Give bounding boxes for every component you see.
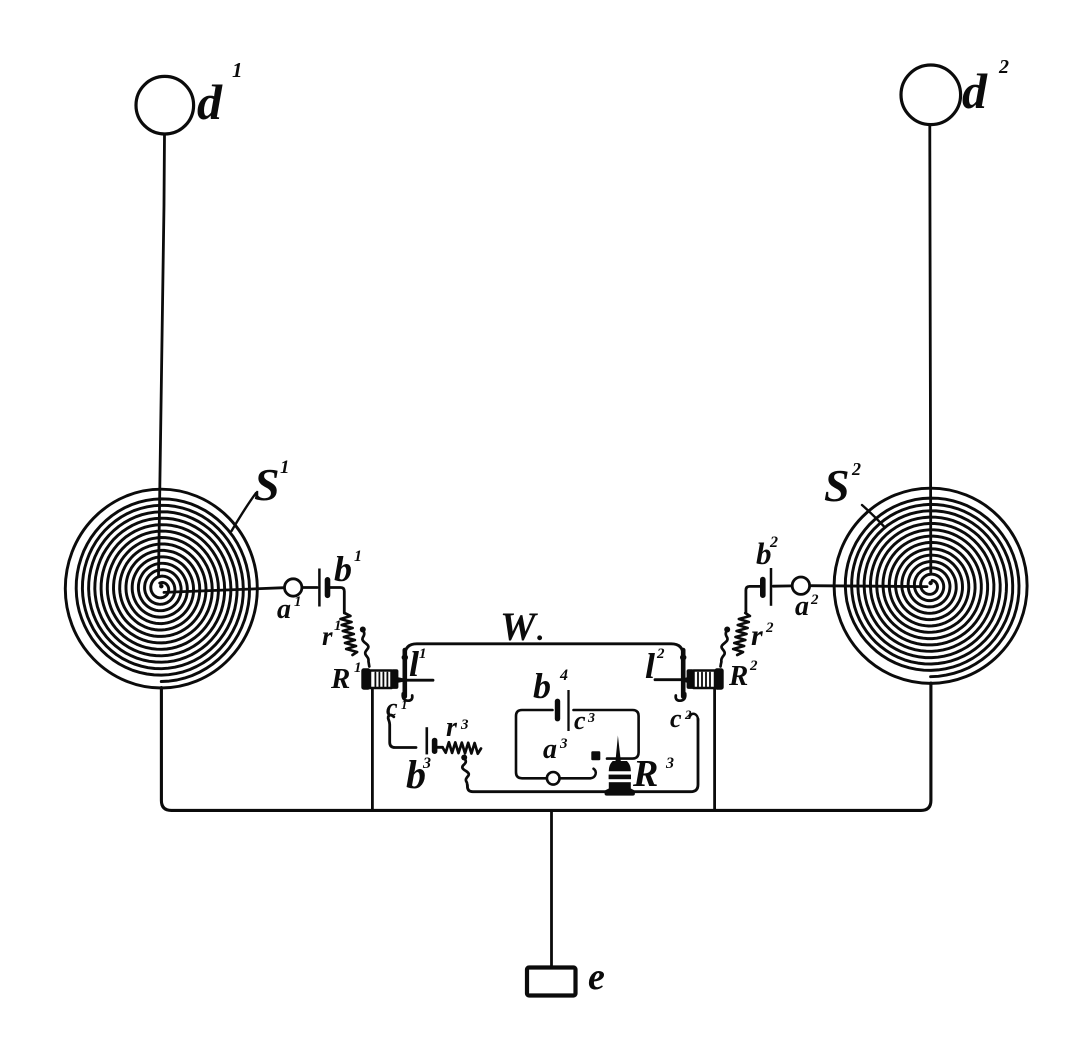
wire R1 to bottom rail (box left wall)	[371, 690, 374, 809]
svg-text:l: l	[409, 644, 419, 684]
relay box W top	[405, 644, 683, 661]
svg-text:1: 1	[280, 457, 290, 478]
svg-text:3: 3	[665, 755, 674, 772]
wire b2 to r2	[746, 586, 761, 613]
junction blob r3	[461, 755, 467, 761]
svg-text:a: a	[277, 594, 291, 625]
resistor r2	[733, 613, 750, 655]
armature hook l1	[403, 694, 413, 701]
svg-text:R: R	[330, 663, 350, 695]
battery b2	[770, 568, 773, 606]
svg-text:1: 1	[354, 660, 362, 676]
earth plate e	[527, 968, 576, 996]
svg-text:2: 2	[749, 658, 758, 674]
svg-text:.: .	[537, 614, 545, 647]
svg-text:1: 1	[419, 646, 427, 662]
svg-text:3: 3	[559, 736, 568, 752]
wire d1 to S1	[159, 134, 165, 576]
flexible wire r1 to R1	[362, 630, 369, 667]
svg-text:e: e	[588, 956, 605, 998]
svg-text:1: 1	[294, 594, 302, 610]
svg-text:1: 1	[401, 697, 408, 712]
svg-text:r: r	[322, 621, 333, 651]
vibrator hook	[591, 769, 596, 779]
svg-text:3: 3	[460, 717, 469, 733]
svg-text:1: 1	[232, 58, 243, 82]
antenna ball d1	[136, 76, 194, 134]
bottom rail	[161, 683, 931, 810]
wire c1 to b3	[388, 715, 416, 747]
resistor r1	[341, 613, 358, 655]
svg-text:2: 2	[810, 592, 819, 608]
svg-text:r: r	[751, 619, 763, 652]
armature hook l2	[676, 694, 686, 701]
svg-text:2: 2	[684, 707, 692, 722]
wire to R3 and up to c2	[467, 719, 698, 792]
svg-text:c: c	[574, 706, 586, 735]
flexible wire r2 to R2	[721, 630, 728, 667]
svg-text:2: 2	[769, 534, 778, 551]
svg-text:c: c	[670, 704, 682, 733]
node S1 center	[159, 584, 163, 588]
svg-text:2: 2	[765, 620, 774, 636]
svg-text:l: l	[645, 646, 655, 686]
svg-text:d: d	[197, 74, 223, 130]
antenna ball d2	[901, 65, 961, 125]
wire R2 to bottom rail (box right wall)	[713, 690, 716, 809]
wire d2 to S2	[930, 125, 931, 572]
svg-text:4: 4	[559, 667, 568, 684]
coherer R2	[694, 671, 716, 689]
svg-text:a: a	[795, 591, 809, 622]
spiral coil S2	[845, 498, 1019, 677]
wire b3 to r3	[436, 746, 442, 749]
recorder needle R3	[615, 736, 621, 763]
earth wire	[550, 811, 553, 966]
junction blob r1	[360, 627, 366, 633]
svg-text:S: S	[824, 460, 850, 511]
svg-text:R: R	[632, 753, 658, 795]
spiral coil S1	[76, 499, 249, 682]
pointer S2	[862, 505, 885, 527]
wire a2 to b2	[773, 585, 792, 588]
svg-text:1: 1	[354, 548, 362, 565]
resistor r3	[443, 742, 482, 754]
svg-text:d: d	[962, 63, 988, 119]
relay armature l2	[681, 650, 686, 697]
battery b3	[425, 727, 428, 754]
wire S1 center to a1	[164, 588, 284, 593]
contact a1	[285, 579, 302, 596]
svg-text:b: b	[533, 666, 551, 706]
svg-text:3: 3	[587, 711, 595, 726]
svg-text:2: 2	[656, 646, 665, 662]
svg-text:b: b	[334, 549, 352, 589]
flexible wire r3 down	[462, 758, 469, 787]
svg-text:R: R	[728, 660, 748, 692]
relay armature l1	[402, 650, 407, 697]
svg-text:S: S	[254, 459, 280, 510]
svg-text:r: r	[446, 712, 458, 743]
local circuit box	[516, 710, 591, 778]
junction blob r2	[724, 627, 730, 633]
battery b4	[555, 701, 560, 718]
wire a1 to b1	[302, 586, 317, 589]
svg-text:2: 2	[998, 56, 1009, 78]
contact a2	[792, 577, 809, 594]
node S2 center	[928, 581, 932, 585]
pointer S1	[232, 493, 257, 531]
contact block	[591, 751, 600, 760]
coherer R1	[370, 671, 392, 689]
svg-text:W: W	[500, 604, 538, 649]
wire S2 center to a2	[810, 584, 927, 588]
battery b1	[318, 569, 321, 607]
wire b1 to r1	[330, 588, 344, 614]
svg-text:2: 2	[851, 459, 861, 479]
svg-text:1: 1	[334, 618, 342, 634]
svg-text:3: 3	[422, 755, 431, 772]
contact a3	[547, 772, 560, 785]
contact curl c2 wire	[690, 714, 698, 720]
svg-text:a: a	[543, 734, 557, 765]
recorder R3	[609, 761, 631, 771]
